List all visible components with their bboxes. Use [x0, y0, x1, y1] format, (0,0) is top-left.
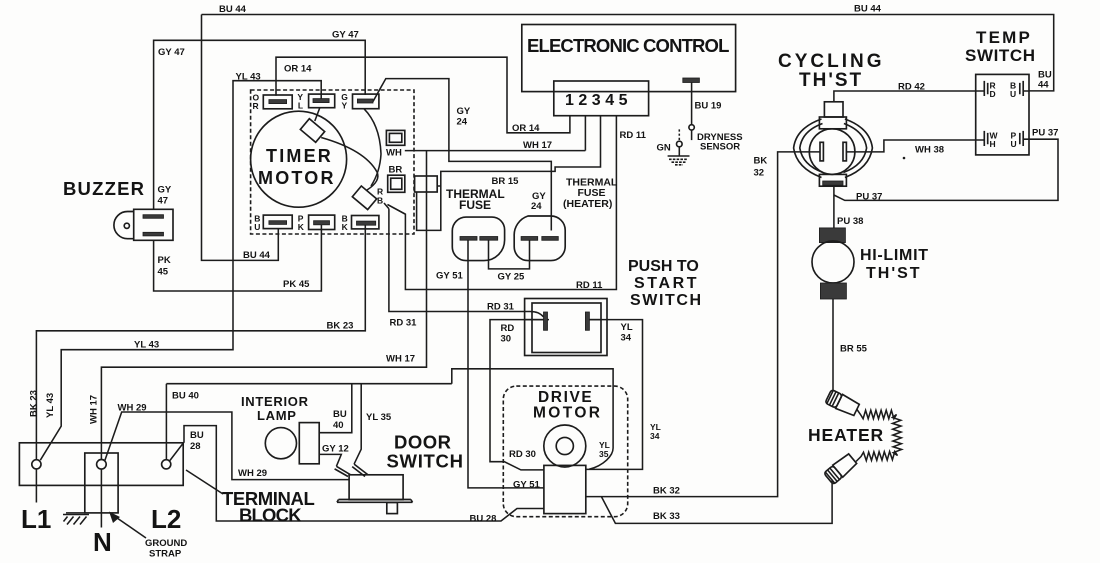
svg-text:TEMP: TEMP: [976, 28, 1032, 47]
svg-text:RD: RD: [501, 323, 515, 334]
svg-text:PK: PK: [158, 255, 171, 266]
heater HTR1 bottom electrode: [824, 453, 858, 485]
drive motor terminal block: [544, 465, 586, 513]
svg-text:STRAP: STRAP: [149, 549, 182, 560]
door switch S2 body: [337, 475, 413, 514]
svg-text:CYCLING: CYCLING: [778, 51, 885, 72]
svg-text:SWITCH: SWITCH: [630, 292, 703, 309]
svg-text:47: 47: [158, 196, 169, 207]
svg-text:GROUND: GROUND: [145, 538, 187, 549]
svg-text:BK 23: BK 23: [327, 321, 354, 332]
svg-text:GY 25: GY 25: [498, 272, 525, 283]
svg-text:PU 37: PU 37: [1032, 128, 1058, 139]
chassis flag on BU19: [683, 78, 700, 83]
wire BK23 timer BK to L1: [36, 225, 365, 460]
wire WH29 N to door switch: [105, 412, 349, 480]
wire BR55 hi-limit to heater: [832, 299, 834, 391]
svg-text:BR 55: BR 55: [840, 344, 868, 355]
svg-text:GY 51: GY 51: [436, 271, 463, 282]
temp switch internal wire stubs: [976, 91, 1029, 140]
wire N stub below: [100, 469, 102, 527]
svg-text:LAMP: LAMP: [257, 408, 297, 423]
svg-text:U: U: [254, 222, 260, 232]
svg-text:Y: Y: [342, 101, 348, 111]
buzzer component: [114, 209, 173, 240]
drive motor rotor circles: [544, 425, 586, 467]
svg-text:PU 37: PU 37: [856, 192, 882, 203]
timer motor circle: [251, 111, 347, 207]
ground symbol at neutral block: [63, 513, 89, 525]
wire RD31 timer RB to push-to-start switch: [389, 209, 544, 317]
node N terminal: [97, 460, 107, 470]
svg-text:GN: GN: [657, 143, 671, 154]
timer terminal BR box: [388, 165, 405, 193]
svg-text:L: L: [298, 101, 303, 111]
svg-text:K: K: [342, 222, 349, 232]
svg-text:BU 44: BU 44: [854, 4, 882, 15]
thermal fuse F1 body: [452, 217, 504, 261]
svg-text:MOTOR: MOTOR: [258, 168, 336, 188]
terminal block TB1 outline: [19, 443, 183, 486]
svg-text:GY: GY: [457, 106, 471, 117]
svg-text:WH 29: WH 29: [238, 468, 267, 479]
svg-text:35: 35: [599, 449, 609, 459]
dryness sensor contact circle: [689, 125, 694, 130]
svg-text:BU 44: BU 44: [243, 250, 271, 261]
svg-text:K: K: [298, 222, 305, 232]
svg-text:(HEATER): (HEATER): [563, 198, 612, 210]
svg-text:BU 28: BU 28: [470, 513, 497, 524]
heater HTR1 top electrode: [825, 389, 860, 417]
wire BK32 cycling thst to drive motor: [586, 152, 820, 497]
svg-text:HEATER: HEATER: [808, 425, 884, 445]
svg-text:BK 23: BK 23: [29, 390, 40, 417]
wire YL35 door switch to drive motor: [354, 369, 613, 470]
svg-text:HI-LIMIT: HI-LIMIT: [860, 247, 929, 264]
svg-text:RD 31: RD 31: [390, 318, 418, 329]
temp switch terminal WH: [984, 131, 998, 150]
wire BU44 top run: [202, 15, 1054, 91]
wire BU19 control to dryness sensor: [691, 83, 693, 125]
timer external BR junction box: [415, 176, 438, 192]
svg-text:BR: BR: [389, 165, 403, 176]
svg-text:START: START: [634, 275, 699, 292]
svg-text:RD 31: RD 31: [487, 302, 515, 313]
wire YL43 timer YL to L1: [40, 81, 321, 461]
wire GY51 thermal fuse to drive motor: [468, 240, 544, 488]
timer motor U1 dashed enclosure: [251, 90, 414, 234]
svg-text:FUSE: FUSE: [459, 198, 491, 212]
svg-text:24: 24: [531, 201, 542, 212]
wire BU28 L2 to drive motor: [170, 426, 544, 521]
stray scan dot: [903, 157, 906, 160]
temp switch S4 box: [976, 74, 1029, 154]
timer terminal OR: [253, 93, 293, 111]
push to start internal wires: [525, 319, 601, 321]
svg-text:RD 11: RD 11: [576, 280, 603, 291]
svg-text:L2: L2: [151, 504, 181, 534]
svg-text:BUZZER: BUZZER: [63, 178, 145, 199]
push to start switch S1 outer box: [525, 299, 607, 356]
svg-text:BR 15: BR 15: [492, 176, 520, 187]
wire BK33 drive motor to heater: [601, 480, 832, 524]
door switch contact arm 2: [352, 464, 367, 476]
svg-text:TH'ST: TH'ST: [866, 265, 922, 282]
dryness sensor stub below contact: [691, 130, 693, 140]
wire PK45 buzzer to timer PK: [154, 225, 322, 292]
svg-text:SENSOR: SENSOR: [700, 142, 740, 153]
svg-text:24: 24: [457, 117, 468, 128]
dryness sensor GN contact circle: [677, 141, 683, 147]
wire PU38 cycling thst to hi-limit: [833, 186, 835, 228]
svg-text:44: 44: [1038, 80, 1049, 91]
label TERMINAL BLOCK with pointer: [186, 470, 314, 526]
svg-text:U: U: [1010, 89, 1016, 99]
drive motor B1 dashed enclosure: [503, 386, 627, 517]
timer terminal WH box: [386, 130, 405, 158]
svg-text:34: 34: [621, 333, 632, 344]
svg-text:BU 44: BU 44: [219, 4, 247, 15]
timer terminal PK: [298, 214, 335, 232]
svg-text:30: 30: [501, 334, 512, 345]
svg-text:ELECTRONIC CONTROL: ELECTRONIC CONTROL: [527, 35, 729, 56]
svg-text:45: 45: [158, 267, 169, 278]
svg-text:MOTOR: MOTOR: [533, 405, 602, 422]
svg-text:YL 43: YL 43: [45, 393, 56, 418]
svg-text:28: 28: [190, 441, 201, 452]
door switch contact arm 1: [335, 466, 351, 476]
svg-text:L1: L1: [21, 504, 51, 534]
timer terminal BU: [254, 214, 292, 232]
wire GY47 buzzer to timer GY: [154, 40, 366, 209]
wire PU37 temp switch to cycling thst: [834, 139, 1058, 200]
svg-text:34: 34: [650, 431, 660, 441]
svg-text:WH 17: WH 17: [386, 354, 415, 365]
push to start contact right: [585, 312, 589, 330]
temp switch terminal PU: [1011, 131, 1024, 150]
heater element zigzag: [856, 410, 902, 462]
svg-text:PK 45: PK 45: [283, 279, 310, 290]
timer terminal BK: [342, 214, 379, 232]
wire GY12 lamp to door switch: [319, 454, 341, 466]
svg-text:OR 14: OR 14: [512, 123, 540, 134]
wire YL34 switch to drive motor: [586, 320, 643, 470]
svg-text:GY: GY: [158, 185, 172, 196]
svg-text:YL: YL: [621, 322, 633, 333]
svg-text:GY 47: GY 47: [158, 47, 185, 58]
svg-text:BLOCK: BLOCK: [239, 505, 302, 526]
svg-text:YL 35: YL 35: [366, 412, 392, 423]
svg-text:12345: 12345: [565, 92, 632, 109]
wire BU44 left branch to timer BU: [202, 15, 279, 261]
svg-text:N: N: [93, 527, 112, 557]
interior lamp DS1: [265, 423, 319, 464]
hi-limit thermostat S5: [812, 228, 854, 299]
wire WH38 cycling thst to temp switch: [846, 140, 975, 152]
thermal fuse F1 contacts: [460, 237, 477, 241]
svg-text:GY 12: GY 12: [322, 444, 349, 455]
svg-text:SWITCH: SWITCH: [965, 46, 1036, 65]
wire RD11 control pin4 around fuse box to timer RB: [388, 116, 617, 290]
svg-text:YL 43: YL 43: [236, 72, 261, 83]
svg-text:BK 33: BK 33: [653, 511, 680, 522]
svg-text:INTERIOR: INTERIOR: [241, 394, 309, 409]
svg-text:GY 47: GY 47: [332, 30, 359, 41]
svg-text:BU 19: BU 19: [695, 101, 722, 112]
electronic control pin block: [554, 81, 649, 116]
wire L1 stub below: [35, 469, 37, 503]
wire BU40 L2 to interior lamp: [166, 384, 451, 460]
wire RD30 switch to drive motor: [490, 320, 544, 470]
wire BR15 control pin3 to timer BR: [417, 116, 601, 231]
svg-text:PU 38: PU 38: [837, 216, 863, 227]
wire GY25 fuse link: [489, 240, 530, 269]
svg-text:BU: BU: [333, 409, 347, 420]
wire OR14 timer OR to control pin1: [276, 57, 570, 133]
wire RD42 cycling thst to temp switch: [834, 91, 976, 102]
svg-text:WH 17: WH 17: [89, 395, 100, 424]
svg-text:BK 32: BK 32: [653, 486, 680, 497]
svg-text:TIMER: TIMER: [266, 146, 333, 166]
svg-text:PUSH TO: PUSH TO: [628, 258, 699, 275]
svg-text:RD 42: RD 42: [898, 82, 925, 93]
push to start contact left: [544, 312, 548, 330]
cycling thermostat S3: [794, 102, 873, 186]
svg-text:GY 51: GY 51: [513, 480, 540, 491]
timer terminal YL: [297, 92, 334, 111]
node L2 terminal: [162, 460, 171, 469]
timer terminal GY: [341, 92, 379, 111]
svg-text:U: U: [1011, 139, 1017, 149]
temp switch terminal RD: [984, 81, 995, 100]
dryness sensor gap dashes: [678, 129, 680, 140]
svg-text:32: 32: [754, 168, 765, 179]
svg-text:BU: BU: [190, 430, 204, 441]
thermal fuse heater F2 body: [514, 216, 565, 261]
electronic control A1 box: [522, 25, 736, 92]
svg-text:B: B: [377, 196, 383, 206]
wire GY24 timer GY to heater fuse: [373, 79, 551, 231]
svg-text:YL 43: YL 43: [134, 340, 159, 351]
push to start switch inner box: [532, 303, 601, 353]
svg-text:D: D: [990, 89, 996, 99]
timer RB junction diagonals: [384, 203, 405, 214]
timer cam follower curves: [315, 108, 320, 122]
svg-text:RD 11: RD 11: [620, 130, 647, 141]
svg-text:WH 17: WH 17: [523, 140, 552, 151]
svg-text:WH: WH: [386, 148, 402, 159]
svg-text:R: R: [253, 101, 259, 111]
thermal fuse heater contacts: [521, 237, 538, 241]
svg-text:TH'ST: TH'ST: [799, 70, 863, 91]
ground symbol GN: [668, 147, 690, 165]
svg-text:RD 30: RD 30: [509, 449, 536, 460]
svg-text:DRIVE: DRIVE: [538, 389, 593, 406]
svg-text:WH 29: WH 29: [118, 403, 147, 414]
node L1 terminal: [32, 460, 41, 469]
svg-text:40: 40: [333, 420, 344, 431]
timer cam 2: [352, 186, 376, 210]
ground strap pointer arrow: [109, 512, 187, 560]
svg-text:WH 38: WH 38: [915, 145, 944, 156]
svg-text:BK: BK: [754, 156, 768, 167]
temp switch terminal BU: [1010, 81, 1023, 100]
timer cam 1: [300, 119, 324, 143]
svg-text:SWITCH: SWITCH: [387, 450, 464, 471]
svg-text:BU 40: BU 40: [172, 391, 199, 402]
wire WH17 control pin2 run: [101, 116, 585, 460]
svg-text:H: H: [990, 139, 996, 149]
svg-text:OR 14: OR 14: [284, 64, 312, 75]
terminal block neutral sub-block: [85, 453, 118, 513]
